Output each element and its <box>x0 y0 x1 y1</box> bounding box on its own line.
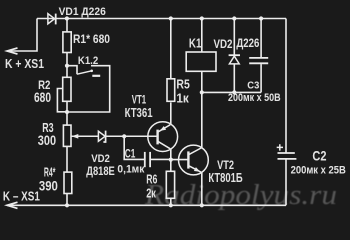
svg-text:0,1мк: 0,1мк <box>117 163 144 175</box>
wire VT2 emitter down <box>201 173 203 206</box>
svg-text:R1* 680: R1* 680 <box>73 32 110 46</box>
wire C1 right lead <box>150 158 171 160</box>
node dot VD2 bottom <box>232 90 236 94</box>
wire R3 wiper line <box>72 135 99 137</box>
wire right rail lower <box>285 159 287 205</box>
svg-text:C2: C2 <box>312 148 326 164</box>
capacitor C2 top plate <box>278 152 295 154</box>
capacitor C2 plus <box>277 144 283 150</box>
wire VD2 bottom lead <box>233 64 235 93</box>
node dot R4 bottom <box>65 203 69 207</box>
wire C1 left L <box>124 136 144 159</box>
zener VD2 cathode bar <box>103 131 105 142</box>
resistor R6 <box>166 171 174 198</box>
capacitor C3 top plate <box>249 57 268 59</box>
wire R6 top lead <box>170 160 172 172</box>
transistor VT1 base bar <box>156 130 158 145</box>
wire R2 bottom lead <box>66 101 68 112</box>
svg-text:2к: 2к <box>146 186 156 201</box>
terminal arrow K+XS1 <box>7 48 18 54</box>
transistor VT2 body <box>179 145 209 175</box>
svg-text:1к: 1к <box>176 90 189 105</box>
wire R2 tap <box>57 89 67 112</box>
wire C3 top lead <box>260 19 262 58</box>
svg-text:C3: C3 <box>247 80 259 91</box>
wire VT2 collector up <box>201 92 203 147</box>
node D junction <box>169 158 173 162</box>
resistor R5 <box>167 79 175 102</box>
wire VT1 emitter to R5 <box>170 102 172 124</box>
wire R6 bottom lead <box>170 198 172 205</box>
svg-text:200мк x 25В: 200мк x 25В <box>291 165 346 177</box>
wire R3 top lead <box>66 112 68 125</box>
zener VD2 triangle <box>98 131 105 141</box>
node dot C3 top <box>259 16 263 20</box>
wire K1 bottom lead <box>201 71 203 92</box>
svg-text:K + XS1: K + XS1 <box>5 57 44 71</box>
svg-text:R6: R6 <box>146 171 157 186</box>
wire VD2 top lead <box>233 19 235 56</box>
svg-text:VD1 Д226: VD1 Д226 <box>59 6 106 18</box>
node dot VT2 emitter bottom <box>200 203 204 207</box>
wire R3-R4 lead <box>66 146 68 172</box>
wire left arm to K+XS1 <box>8 19 37 52</box>
resistor R4 <box>64 172 72 193</box>
svg-text:K1.2: K1.2 <box>78 55 98 67</box>
wire right rail upper <box>285 19 287 153</box>
resistor R2 <box>63 77 71 101</box>
transistor VT1 emitter <box>158 125 171 133</box>
svg-text:300: 300 <box>38 133 56 148</box>
svg-text:K1: K1 <box>189 35 202 50</box>
wire VT2 base lead <box>171 159 189 161</box>
capacitor C1 left plate <box>144 152 146 167</box>
svg-text:680: 680 <box>34 90 51 105</box>
transistor VT2 collector <box>188 148 201 155</box>
contact K1.2 blade <box>77 71 92 74</box>
node dot R1 top <box>65 16 69 20</box>
node dot VD2 top <box>232 16 236 20</box>
node A junction R1/R2/K1.2 <box>65 64 69 68</box>
wire R5 top lead <box>170 19 172 80</box>
svg-text:КТ361: КТ361 <box>125 105 153 120</box>
diode VD1 triangle <box>48 14 55 24</box>
wire R1 bottom lead <box>66 53 68 66</box>
wire K1.2 right lead <box>67 66 110 112</box>
resistor R1 <box>63 32 71 53</box>
node E junction K1/VT2/mid-line <box>200 90 204 94</box>
wire R4 bottom lead <box>66 194 68 206</box>
node B junction R2/R3/K1.2 <box>65 110 69 114</box>
svg-text:R5: R5 <box>176 77 189 91</box>
terminal arrow K-XS1 <box>7 202 18 208</box>
resistor R3 <box>63 125 71 146</box>
arrow R3 wiper <box>72 134 79 139</box>
transistor VT2 emitter arrow <box>194 167 200 172</box>
contact K1.2 fixed dash <box>92 75 100 77</box>
wire mid line <box>202 91 261 93</box>
svg-text:КТ801Б: КТ801Б <box>208 170 242 185</box>
contact K1.2 blade tip <box>90 70 93 73</box>
wire VT1 collector down <box>170 149 172 160</box>
transistor VT2 emitter <box>188 166 201 173</box>
svg-text:K – XS1: K – XS1 <box>3 190 40 204</box>
wire K1.2 left stub <box>67 66 77 75</box>
node dot R5 top <box>169 16 173 20</box>
svg-text:VD2: VD2 <box>214 37 233 51</box>
transistor VT1 collector <box>158 141 171 149</box>
svg-text:390: 390 <box>39 177 58 193</box>
svg-text:200мк x 50В: 200мк x 50В <box>228 92 281 104</box>
wire bottom rail <box>7 204 286 206</box>
svg-text:Д226: Д226 <box>236 38 259 50</box>
wire top rail <box>37 18 286 20</box>
wire K1 top lead <box>201 19 203 53</box>
node dot R6 bottom <box>169 203 173 207</box>
node C junction <box>122 134 126 138</box>
diode VD1 cathode bar <box>55 14 57 25</box>
svg-text:C1: C1 <box>125 147 136 161</box>
svg-text:Д818Е: Д818Е <box>86 164 115 178</box>
wire R2 top lead <box>66 66 68 78</box>
relay coil K1 <box>186 52 216 71</box>
transistor VT2 base bar <box>187 151 189 168</box>
capacitor C2 bottom plate <box>278 158 297 160</box>
transistor VT1 body <box>148 122 178 152</box>
wire C3 bottom lead <box>260 64 262 92</box>
transistor VT1 emitter arrow <box>160 126 166 131</box>
capacitor C1 right plate <box>149 152 151 167</box>
wire zener to node <box>106 135 158 137</box>
node dot K1 top <box>200 16 204 20</box>
diode VD2 triangle <box>229 56 239 64</box>
wire R1 top lead <box>66 19 68 33</box>
diode VD2 cathode bar <box>229 54 240 56</box>
capacitor C3 bottom plate <box>249 62 268 64</box>
